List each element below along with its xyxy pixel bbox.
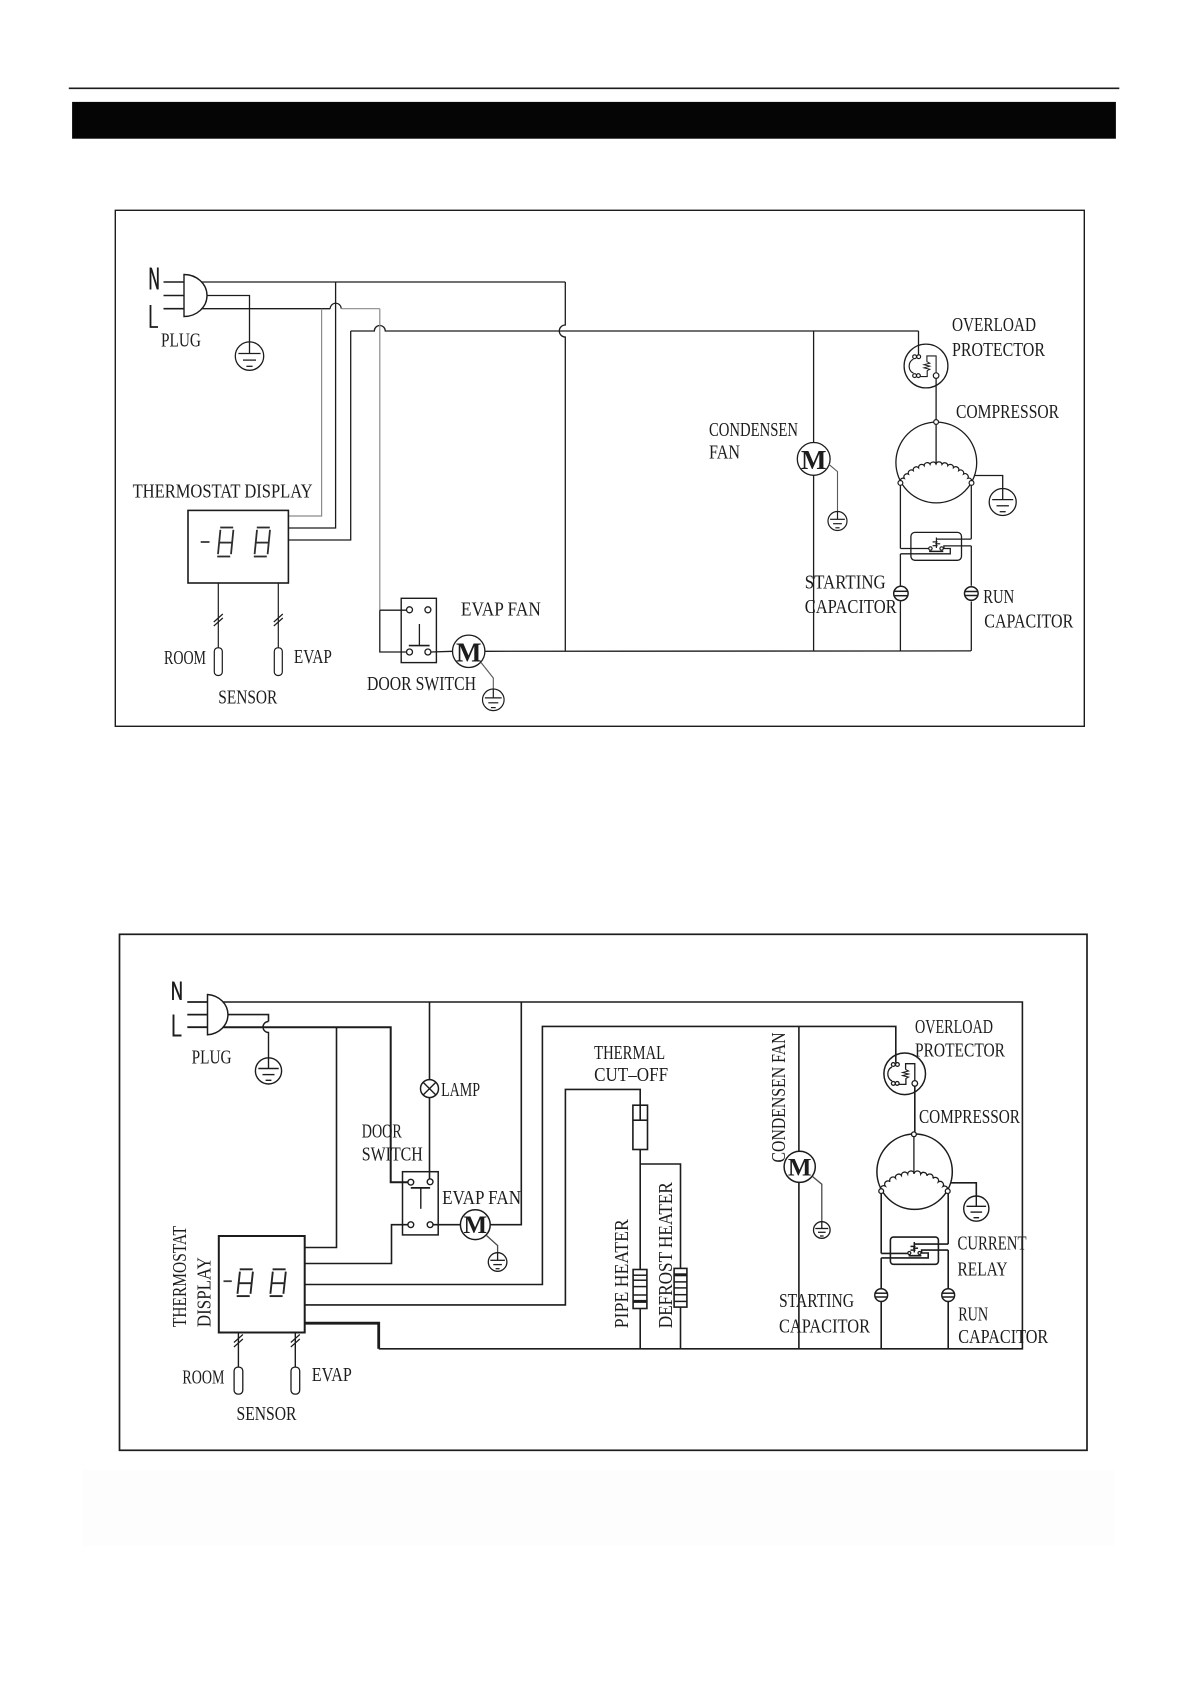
- plug P2 prongs: [187, 1001, 207, 1003]
- svg-text:EVAP: EVAP: [312, 1364, 352, 1386]
- evap fan motor M1: [453, 635, 485, 667]
- door switch S2: [403, 1172, 439, 1235]
- svg-text:EVAP FAN: EVAP FAN: [442, 1187, 521, 1209]
- wire evap fan to bus: [485, 650, 971, 652]
- svg-text:M: M: [456, 637, 481, 667]
- node wire B to display pin2: [289, 282, 336, 528]
- door switch S1: [401, 598, 436, 662]
- thermostat display U1: [188, 510, 288, 583]
- svg-text:CAPACITOR: CAPACITOR: [805, 596, 898, 618]
- overload protector OL1: [904, 344, 948, 388]
- wire N vertical with hop over start-relay wire: [559, 282, 565, 651]
- plug P1 prongs: [164, 281, 185, 283]
- display digit 8 (1) d2: [240, 1268, 253, 1270]
- wire pipe heater to bus: [639, 1309, 641, 1349]
- ground G5 plug2: [255, 1058, 281, 1084]
- title bar: [72, 102, 1116, 139]
- wire start winding drop 2: [880, 1194, 882, 1254]
- svg-text:FAN: FAN: [709, 442, 740, 464]
- svg-text:DISPLAY: DISPLAY: [194, 1257, 216, 1327]
- svg-text:ROOM: ROOM: [164, 647, 206, 669]
- condenser fan motor M4: [784, 1151, 815, 1182]
- svg-text:M: M: [788, 1154, 812, 1181]
- svg-text:THERMOSTAT DISPLAY: THERMOSTAT DISPLAY: [133, 481, 313, 503]
- ground G7 condenser fan 2: [813, 1177, 822, 1222]
- evap sensor bulb: [274, 648, 282, 676]
- wire condenser fan drop: [813, 331, 815, 443]
- plug P2 L label: [174, 1015, 182, 1036]
- ground G8 compressor 2: [964, 1196, 989, 1221]
- wire N bus top: [184, 281, 565, 283]
- wire main winding drop: [970, 485, 972, 539]
- compressor CP2: [877, 1134, 952, 1209]
- wire compressor2 case ground: [951, 1183, 977, 1196]
- wire condenser fan 2 drop: [798, 1026, 800, 1151]
- svg-text:COMPRESSOR: COMPRESSOR: [956, 401, 1060, 423]
- run capacitor C4: [942, 1289, 955, 1302]
- plug P1 body: [184, 275, 207, 317]
- display digit 8 (2): [257, 527, 270, 529]
- svg-text:M: M: [801, 445, 826, 475]
- svg-text:PROTECTOR: PROTECTOR: [952, 339, 1046, 361]
- svg-text:SENSOR: SENSOR: [218, 686, 277, 708]
- ground G4 compressor: [989, 489, 1016, 516]
- svg-text:CAPACITOR: CAPACITOR: [984, 610, 1074, 632]
- display digit 8 (1): [220, 527, 233, 529]
- ground G6 evap fan 2: [487, 1236, 498, 1253]
- svg-text:PROTECTOR: PROTECTOR: [915, 1040, 1006, 1062]
- svg-text:DOOR SWITCH: DOOR SWITCH: [367, 673, 476, 695]
- wire start winding drop: [899, 485, 901, 548]
- thermal cut-off F1: [633, 1105, 648, 1149]
- svg-text:DOOR: DOOR: [362, 1121, 402, 1143]
- wire display pin5 thick to bus: [305, 1323, 379, 1349]
- wire display pin2 to switch: [305, 1225, 408, 1264]
- wire switch to evap fan: [431, 650, 453, 653]
- ground G1 plug: [235, 342, 263, 370]
- pipe heater R1: [633, 1270, 647, 1309]
- wire lamp drop: [429, 1002, 431, 1080]
- evap sensor stem: [277, 583, 279, 648]
- svg-text:EVAP FAN: EVAP FAN: [461, 599, 541, 621]
- starting capacitor C3: [875, 1289, 888, 1302]
- thermostat display U2: [219, 1236, 305, 1333]
- defrost heater R2: [674, 1268, 687, 1307]
- room sensor 2: [237, 1333, 239, 1368]
- wire lamp to switch: [429, 1098, 431, 1179]
- node wire A gray to display pin1: [289, 309, 322, 516]
- svg-text:THERMOSTAT: THERMOSTAT: [169, 1226, 191, 1327]
- svg-text:PLUG: PLUG: [161, 330, 201, 352]
- wire display pin1 to L: [305, 1027, 337, 1247]
- wire defrost heater to bus: [680, 1307, 682, 1349]
- svg-text:CONDENSEN: CONDENSEN: [709, 419, 798, 441]
- wire earth prong: [184, 296, 250, 343]
- faint footer band: [82, 1470, 1114, 1546]
- wire L from plug: [184, 308, 330, 310]
- svg-text:EVAP: EVAP: [294, 646, 332, 668]
- wire L hop over thermostat line: [330, 303, 341, 309]
- wire evap fan up to N: [490, 1002, 521, 1225]
- plug P2 N label: [172, 982, 174, 1001]
- current relay K2: [890, 1237, 938, 1264]
- wire L 2: [208, 1027, 408, 1182]
- svg-text:M: M: [463, 1212, 487, 1239]
- header rule: [69, 87, 1120, 89]
- svg-text:PLUG: PLUG: [192, 1046, 232, 1068]
- ground G3 condenser fan: [829, 464, 838, 511]
- frame 2: [120, 934, 1088, 1450]
- run capacitor C2: [965, 587, 979, 601]
- condenser fan motor M2: [797, 443, 830, 476]
- room sensor stem: [217, 583, 219, 648]
- svg-text:SWITCH: SWITCH: [362, 1144, 423, 1166]
- wire cutoff to heaters: [639, 1150, 641, 1270]
- svg-text:DEFROST HEATER: DEFROST HEATER: [655, 1182, 677, 1329]
- svg-text:PIPE HEATER: PIPE HEATER: [611, 1219, 633, 1329]
- display minus sign: [201, 541, 210, 543]
- svg-text:SENSOR: SENSOR: [237, 1403, 298, 1425]
- wire E gray door-switch feed: [379, 309, 381, 611]
- lamp LP1: [421, 1080, 439, 1098]
- plug P1 L label: [151, 305, 159, 327]
- wire earth prong 2: [208, 1015, 269, 1022]
- wire compressor case ground: [974, 476, 1002, 489]
- starting capacitor C1: [894, 586, 908, 600]
- evap sensor 2: [294, 1333, 296, 1368]
- svg-text:STARTING: STARTING: [779, 1290, 854, 1312]
- wire L gray continuation: [341, 308, 380, 310]
- wire overload to compressor: [935, 378, 937, 419]
- wire N bus 2: [208, 1002, 1023, 1349]
- svg-text:CONDENSEN FAN: CONDENSEN FAN: [768, 1033, 790, 1163]
- display minus 2: [224, 1280, 232, 1282]
- node wire C to display pin3: [289, 331, 351, 540]
- svg-text:STARTING: STARTING: [805, 572, 886, 594]
- svg-text:RUN: RUN: [958, 1304, 988, 1326]
- wire switch to evap fan 2: [433, 1224, 460, 1226]
- svg-text:CAPACITOR: CAPACITOR: [779, 1315, 871, 1337]
- compressor CP1: [896, 422, 977, 503]
- svg-text:THERMAL: THERMAL: [594, 1042, 665, 1064]
- svg-text:RUN: RUN: [983, 586, 1014, 608]
- svg-text:OVERLOAD: OVERLOAD: [915, 1016, 993, 1038]
- wire main winding drop 2: [947, 1194, 949, 1245]
- ground G2 evap fan: [481, 663, 493, 690]
- svg-text:OVERLOAD: OVERLOAD: [952, 314, 1036, 336]
- svg-text:ROOM: ROOM: [182, 1367, 224, 1389]
- PTC start relay K1: [911, 532, 962, 560]
- svg-text:CUT–OFF: CUT–OFF: [594, 1064, 668, 1086]
- svg-text:COMPRESSOR: COMPRESSOR: [919, 1106, 1020, 1128]
- plug P1 N label: [150, 268, 152, 290]
- evap fan motor M3: [460, 1210, 490, 1240]
- wire D overload feed with hop: [351, 326, 919, 332]
- wire display pin4 to thermal cutoff: [305, 1089, 641, 1305]
- wire overload2 to compressor2: [914, 1086, 916, 1132]
- wire display pin3 long bus: [305, 1026, 896, 1284]
- room sensor bulb: [214, 648, 222, 676]
- svg-text:CURRENT: CURRENT: [958, 1232, 1027, 1254]
- svg-text:CAPACITOR: CAPACITOR: [958, 1326, 1049, 1348]
- display digit 8 (2) d2: [273, 1268, 286, 1270]
- overload protector OL2: [884, 1053, 926, 1095]
- svg-text:LAMP: LAMP: [441, 1079, 480, 1101]
- frame 1: [115, 210, 1084, 726]
- plug P2 body: [208, 995, 228, 1035]
- svg-text:RELAY: RELAY: [958, 1258, 1008, 1280]
